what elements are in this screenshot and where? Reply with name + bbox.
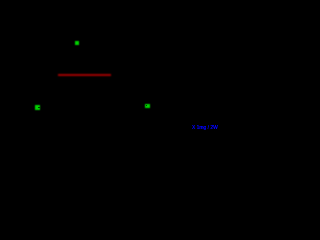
wire (red trace segment) <box>58 74 111 76</box>
via V1 (green pad, upper area) <box>75 41 79 45</box>
via V3 drill notch <box>146 105 147 106</box>
via V2 (green pad, lower left) <box>35 105 40 110</box>
via V2 drill notch <box>38 107 40 109</box>
via V3 (green pad, lower middle) <box>145 104 150 108</box>
label (blue annotation text, bottom right) <box>192 125 222 132</box>
